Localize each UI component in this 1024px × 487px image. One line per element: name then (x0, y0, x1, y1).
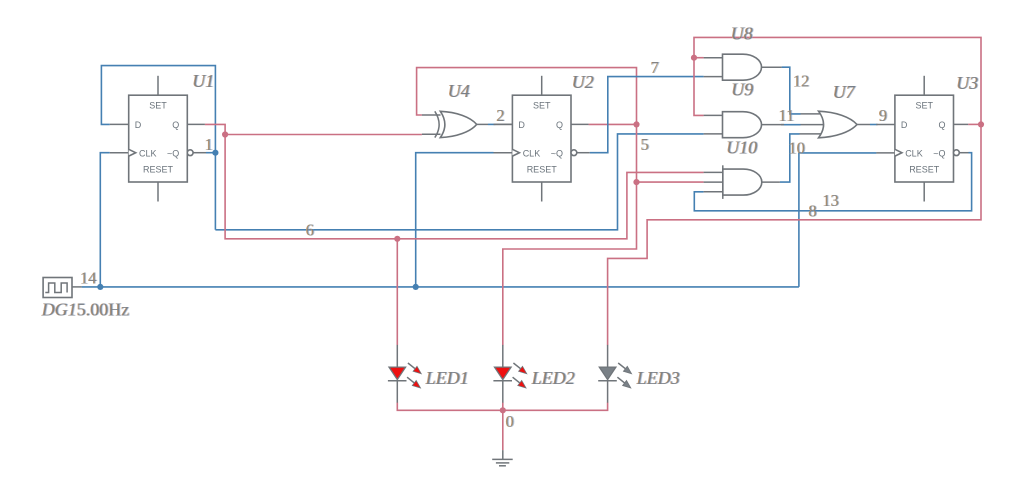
svg-text:2: 2 (497, 106, 505, 125)
svg-text:7: 7 (651, 58, 659, 77)
junction on net 6 below U1.Q (red dot) (222, 131, 228, 137)
flip-flop U3 (876, 76, 968, 202)
label U10 (726, 138, 759, 158)
svg-text:CLK: CLK (523, 149, 541, 159)
node 10 (788, 139, 806, 158)
node 1 (204, 135, 214, 154)
svg-text:Q: Q (556, 120, 563, 130)
ground (492, 450, 513, 466)
node 14 (80, 269, 98, 288)
LED2 (red, lit) (493, 345, 526, 403)
LED1 (red, lit) (388, 345, 421, 403)
label U3 (956, 73, 980, 93)
svg-text:~Q: ~Q (167, 149, 179, 159)
svg-text:13: 13 (823, 191, 840, 210)
label U8 (730, 24, 754, 44)
svg-text:11: 11 (779, 106, 795, 125)
svg-text:LED2: LED2 (531, 368, 575, 388)
label U7 (832, 82, 857, 102)
junction on net 6 at LED1 drop (red dot) (394, 236, 400, 242)
label U4 (447, 81, 471, 101)
svg-text:U10: U10 (727, 138, 758, 158)
svg-text:U8: U8 (731, 24, 753, 44)
wire net 8 from U3.Q to U8 input A, U9 input A and LED3 (red) (608, 37, 981, 345)
svg-text:RESET: RESET (527, 164, 558, 174)
junction net 5 at U2.Q (red dot) (633, 121, 639, 127)
svg-text:SET: SET (533, 101, 551, 111)
and gate U8 (704, 54, 782, 80)
junction node 1 on U1.~Q (blue dot) (212, 150, 218, 156)
svg-text:Q: Q (172, 120, 179, 130)
svg-text:U4: U4 (448, 81, 470, 101)
svg-text:RESET: RESET (909, 164, 940, 174)
label U9 (731, 80, 755, 100)
label LED3 (635, 368, 681, 388)
flip-flop U2 (494, 76, 590, 202)
flip-flop U1 (110, 76, 206, 202)
node 5 (640, 135, 650, 154)
svg-text:1: 1 (205, 135, 213, 154)
and gate U10 (3-input) (704, 165, 780, 199)
node 7 (650, 58, 660, 77)
svg-text:LED3: LED3 (636, 368, 680, 388)
svg-text:SET: SET (149, 101, 167, 111)
label LED2 (530, 368, 576, 388)
wire net 9 segment from U7 output to U3.D (blue tick) (870, 124, 878, 126)
junction net 8 at U3.Q (red dot) (978, 121, 984, 127)
svg-text:U3: U3 (957, 73, 979, 93)
wire net 5 from U2.Q to U4 input A, U10 input B and LED2 (red) (417, 68, 704, 346)
svg-text:CLK: CLK (905, 149, 923, 159)
xor gate U4 (422, 111, 513, 137)
svg-text:D: D (901, 120, 908, 130)
svg-text:D: D (135, 120, 142, 130)
svg-text:U1: U1 (193, 71, 215, 91)
wire net 6 from U1.Q to U4 input B, U10 input A and LED1 (red) (205, 124, 704, 345)
or gate U7 (3-input) (800, 111, 871, 138)
clock source DG1 (43, 278, 82, 298)
svg-text:LED1: LED1 (425, 368, 469, 388)
wire net 1 loop U1.~Q to U1.D and to U9 input B (blue) (101, 66, 703, 230)
wire net 0 ground bus joining LED cathodes (red) (397, 403, 607, 451)
node 11 (778, 106, 795, 125)
wire net 11 from U9 output to U7 input B (blue) (781, 124, 801, 126)
svg-text:0: 0 (506, 412, 514, 431)
svg-text:14: 14 (80, 269, 97, 288)
node 13 (822, 191, 840, 210)
svg-text:~Q: ~Q (551, 149, 563, 159)
node 12 (793, 72, 811, 91)
junction on clock bus at U1 riser (blue dot) (97, 284, 103, 290)
junction net 0 at ground stem (red dot) (500, 407, 506, 413)
and gate U9 (704, 112, 784, 138)
svg-text:D: D (518, 120, 525, 130)
wire net 2 segment from U4 output to U2.D (blue tick) (488, 123, 496, 125)
svg-text:DG15.00Hz: DG15.00Hz (41, 300, 130, 320)
svg-text:U7: U7 (833, 82, 856, 102)
svg-text:~Q: ~Q (933, 149, 945, 159)
wire net 13 from U3.~Q to U10 input C (blue) (694, 153, 971, 211)
wire from U10 output to U7 input C (blue) (780, 134, 800, 182)
label DG1 5.00Hz (40, 300, 130, 320)
svg-text:8: 8 (809, 202, 817, 221)
svg-text:U2: U2 (572, 72, 594, 92)
svg-text:RESET: RESET (143, 164, 174, 174)
label LED1 (424, 368, 470, 388)
junction on clock bus at U2 riser (blue dot) (413, 284, 419, 290)
wire net 14 clock bus from DG1 to U1.CLK U2.CLK U3.CLK (blue) (82, 153, 877, 287)
junction net 5 at U10 input B tap (red dot) (633, 179, 639, 185)
svg-text:SET: SET (915, 101, 933, 111)
node 8 (808, 202, 818, 221)
svg-text:10: 10 (789, 139, 806, 158)
svg-text:12: 12 (793, 72, 810, 91)
svg-text:CLK: CLK (139, 149, 157, 159)
wire net 7 from U2.~Q to U8 input B (blue) (590, 77, 704, 153)
node 9 (879, 106, 889, 125)
junction net 8 at U8 input tap (red dot) (691, 55, 697, 61)
label U2 (571, 72, 595, 92)
svg-text:9: 9 (879, 106, 887, 125)
node 2 (496, 106, 506, 125)
LED3 (gray, off) (598, 345, 631, 403)
node 0 (505, 412, 515, 431)
svg-text:U9: U9 (732, 80, 754, 100)
wire net 12 from U8 output to U7 input A (blue) (782, 67, 801, 114)
svg-text:6: 6 (306, 221, 314, 240)
svg-text:Q: Q (938, 120, 945, 130)
node 6 (305, 221, 315, 240)
label U1 (192, 71, 216, 91)
svg-text:5: 5 (641, 135, 649, 154)
